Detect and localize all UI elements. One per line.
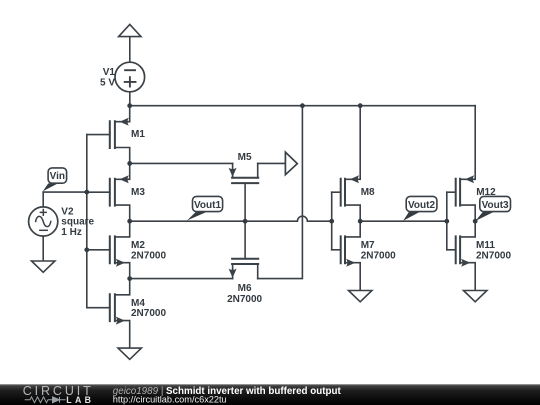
junction M3 source / M2 drain (Vout1) <box>127 219 132 224</box>
svg-text:M5: M5 <box>238 152 252 163</box>
transistor M2 <box>87 221 130 278</box>
logo squiggle resistor-diode <box>25 397 66 403</box>
svg-text:5 V: 5 V <box>100 77 115 88</box>
voltage source V1 <box>115 62 145 105</box>
wire gate bus M7-M8 <box>331 192 333 250</box>
junction M1 source / M3 drain <box>127 161 132 166</box>
svg-text:2N7000: 2N7000 <box>131 250 166 261</box>
junction Vin wire on input bus <box>84 190 89 195</box>
wire V2 to Vin <box>42 192 44 207</box>
svg-text:LAB: LAB <box>66 395 94 405</box>
vdd symbol <box>119 24 141 62</box>
wire node M1-M3 to M5 <box>130 162 233 164</box>
wire Vout2 net <box>360 220 447 222</box>
transistor M5 <box>229 163 259 221</box>
junction Vout1 wire to M7-M8 gate bus <box>329 219 334 224</box>
svg-text:Vout2: Vout2 <box>408 200 435 211</box>
junction Vout2 wire to M11-M12 gate bus <box>444 219 449 224</box>
svg-text:Vout1: Vout1 <box>194 200 221 211</box>
svg-text:Vin: Vin <box>50 171 65 182</box>
ground under M7 <box>349 291 372 302</box>
svg-text:M1: M1 <box>131 129 145 140</box>
svg-text:2N7000: 2N7000 <box>131 308 166 319</box>
transistor M3 <box>87 163 130 221</box>
wire input bus <box>86 135 88 308</box>
transistor M8 <box>332 106 361 222</box>
junction V1-M1 drain on VDD rail <box>127 103 132 108</box>
ground under M11 <box>464 291 487 302</box>
junction M2 gate on input bus <box>84 247 89 252</box>
junction M2 source / M4 drain <box>127 276 132 281</box>
transistor M1 <box>87 106 130 164</box>
svg-text:V1: V1 <box>103 67 116 78</box>
svg-text:M3: M3 <box>131 187 145 198</box>
wire node M2-M4 to M6 <box>130 278 233 280</box>
svg-text:Vout3: Vout3 <box>482 200 509 211</box>
svg-text:M12: M12 <box>476 187 496 198</box>
junction M5-M6 gates on Vout1 wire <box>243 219 248 224</box>
wire gate bus M11-M12 <box>446 192 448 250</box>
transistor M7 <box>332 221 361 290</box>
buffer triangle <box>285 152 297 175</box>
junction M8 source / M7 drain (Vout2) <box>358 219 363 224</box>
svg-text:http://circuitlab.com/c6x22tu: http://circuitlab.com/c6x22tu <box>113 394 227 404</box>
transistor M4 <box>87 279 130 349</box>
svg-text:2N7000: 2N7000 <box>361 250 396 261</box>
junction VDD rail to M8 drain <box>358 103 363 108</box>
wire VDD rail <box>130 105 476 107</box>
svg-text:1 Hz: 1 Hz <box>61 227 82 238</box>
wire Vin net <box>43 191 87 193</box>
transistor M6 <box>229 221 259 278</box>
transistor M12 <box>447 106 475 222</box>
svg-text:2N7000: 2N7000 <box>227 294 262 305</box>
footer bar <box>0 384 540 405</box>
wire feed to M6 drain <box>258 106 303 279</box>
svg-text:M8: M8 <box>361 187 375 198</box>
node label Vout2 <box>403 196 437 220</box>
node label Vin <box>43 168 67 191</box>
voltage source V2 <box>29 207 58 261</box>
svg-text:M6: M6 <box>238 283 252 294</box>
node label Vout1 <box>187 196 223 220</box>
transistor M11 <box>447 221 475 290</box>
junction M12 source / M11 drain (Vout3) <box>473 219 478 224</box>
wire M5 drain to buffer <box>258 162 286 164</box>
junction VDD rail to M6 feed <box>300 103 305 108</box>
ground under V2 <box>32 261 55 272</box>
ground under M4 <box>118 348 141 359</box>
node label Vout3 <box>475 196 510 221</box>
svg-text:2N7000: 2N7000 <box>476 250 511 261</box>
wire Vout1 net with hop <box>130 216 332 221</box>
